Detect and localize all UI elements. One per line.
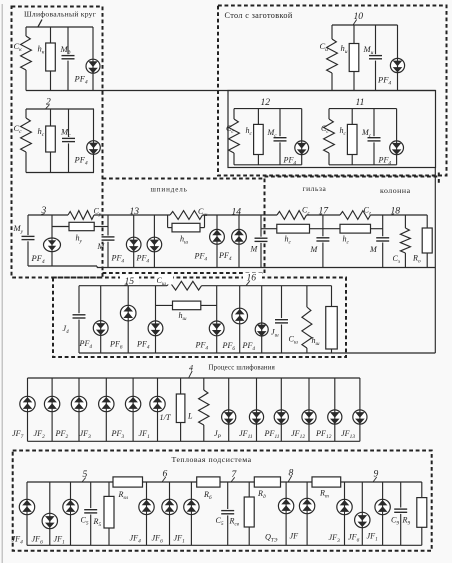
mass M_y capacitor (circuit3) [22,215,35,266]
source JP down (row4) [222,378,236,441]
scan edge line [1,4,3,563]
spring C_i (circuit10) [327,25,338,91]
mass M capacitor (node18) [376,215,390,268]
node 16 label [243,273,262,286]
svg-text:M: M [310,245,319,254]
resistor R_9 (node9) [417,482,427,545]
wire: main middle bus [28,214,427,216]
svg-text:Тепловая подсистема: Тепловая подсистема [172,455,252,464]
wire: circuit11 bottom rail [329,164,397,166]
damper h_sh vertical (16) [326,286,338,353]
source PF4 (circuit1) [86,27,100,91]
source QТЭ (thermal) [278,482,293,545]
source JF12 down (row4) [302,378,316,441]
svg-text:1/T: 1/T [160,413,172,422]
spring C_k (circuit1) [21,27,32,91]
source PF4 b (circuit14) [232,215,247,268]
block 1/T (row4) [176,378,185,441]
damper h_i (circuit10) [349,25,359,91]
svg-text:13: 13 [130,206,140,217]
spring C_c (circuit11) [324,109,335,165]
source JF2 up (row4) [44,378,59,441]
source JF6 (thermal) [42,482,57,545]
spring C_c (circuit2) [21,109,32,173]
wire: thermal bottom bus [27,544,422,546]
svg-text:Стол с заготовкой: Стол с заготовкой [225,11,293,20]
capacitor C_5 (node5) [84,482,98,545]
svg-text:11: 11 [356,97,365,108]
inductor L (row4) [199,378,209,441]
mass M_c capacitor (circuit12) [274,109,287,165]
source PF12 down (row4) [328,378,342,441]
source JF3 (thermal) [337,482,352,545]
wire: circuit3 bottom rail [28,266,97,268]
source PF4 c (16) [209,286,224,353]
svg-text:гильза: гильза [303,184,327,193]
dashed block: nodes 15-16 [53,278,346,358]
solid box around circuits 11 and 12 [228,91,436,168]
mass M capacitor (circuit14 right) [254,215,268,268]
wire: long bus between upper blocks [26,90,436,92]
dashed block: table with workpiece (Stol s zagotovkoj) [218,6,447,176]
source JF7 up (row4) [20,378,35,441]
node 1 label [38,20,42,27]
wire: 15/16 bottom bus [79,352,435,354]
resistor R_d (thermal 7-8) [254,477,280,487]
svg-text:14: 14 [232,207,242,218]
wire: circuit2 bottom rail [26,172,94,174]
source JF4 (thermal) [19,482,34,545]
svg-text:M: M [369,245,378,254]
capacitor J_4 (15) [72,286,86,353]
source PF4 (circuit12) [295,109,309,165]
source PF4 (circuit2) [87,109,101,173]
mass M capacitor (node17) [316,215,330,268]
source PF4 a (circuit14) [210,215,225,268]
source PF4 (circuit11) [390,109,404,165]
damper h_g right (sleeve) [323,224,383,233]
source JF6 (thermal) [162,482,177,545]
wire: circuit12 top rail [234,108,302,110]
svg-text:Процесс шлифования: Процесс шлифования [209,365,276,372]
capacitor J_sh (16) [275,286,289,353]
mass M_k capacitor (circuit1) [62,27,75,91]
source JF1 (thermal) [63,482,78,545]
node 15 label [120,275,139,287]
capacitor C_9 (node9) [394,482,408,545]
damper h_sh (15) [156,301,217,310]
spring C_sh inline (15) [167,281,202,290]
source JF6 (thermal) [355,482,370,545]
source PF4 a (circuit13) [126,215,141,268]
wire: circuit12 bottom rail [234,164,302,166]
source PF4 (circuit10) [390,25,404,91]
damper h_c (circuit12) [254,109,264,165]
resistor R_5 (node5) [104,482,114,545]
source PF11 down (row4) [274,378,288,441]
wire: circuit11 top rail [329,108,397,110]
spring C_c (circuit12) [229,109,240,165]
source PF4 d (16) [255,286,268,353]
source PF4 b (15) [148,286,163,353]
resistor R_t (thermal 8-9) [312,477,341,487]
svg-text:L: L [187,412,193,421]
svg-text:M: M [250,245,259,254]
wire: circuit10 top rail [332,24,398,26]
damper h_y (circuit3) [52,222,108,230]
spring C_sh vertical (16) [302,286,312,353]
svg-text:M: M [97,242,106,251]
mass M capacitor (circuit13 left) [101,215,115,268]
wire: 15/16 top bus [79,285,332,287]
damper h_g left (sleeve) [261,224,323,233]
capacitor C_5 (node7) [221,482,235,545]
spring C_g inline (sleeve left) [277,211,307,220]
svg-text:16: 16 [247,273,257,284]
dashed block: thermal subsystem (Teplovaya podsistema) [13,451,432,551]
spring C_sh inline (circuit13) [170,211,203,220]
wire: thermal bus [27,481,422,483]
resistor R_0 (column) [422,215,432,268]
resistor R_6 (thermal 6-7) [197,477,220,487]
mass M_i capacitor (circuit10) [369,25,382,91]
source JF (thermal) [299,482,314,545]
mass M_c capacitor (circuit11) [368,109,381,165]
svg-text:JF: JF [290,532,300,541]
source PF2 up (row4) [71,378,86,441]
source PF4 b (circuit13) [147,215,162,268]
dashed border: sleeve/column top (gilza-kolonna) [265,173,441,184]
wire: row4 bottom bus [28,440,360,442]
label C_sh (15) [155,275,173,287]
wire: right vertical link [434,168,436,354]
damper h_sh (circuit13) [168,215,205,232]
svg-text:шпиндель: шпиндель [151,186,188,194]
source PF4 a (15) [93,286,108,353]
source JF4 (thermal) [139,482,154,545]
svg-text:Шлифовальный круг: Шлифовальный круг [24,10,96,19]
svg-text:10: 10 [354,11,364,22]
source JF3 up (row4) [99,378,114,441]
source PF4 (circuit3) [44,215,61,266]
source PF3 up (row4) [125,378,140,441]
source PF6 up (15) [120,286,136,353]
source PF6 up (16) [232,286,248,353]
wire: row4 top bus [28,377,360,379]
spring C_g2 inline (sleeve right) [340,211,371,220]
svg-text:колонна: колонна [380,186,411,195]
spring C_z (column) [400,215,410,268]
resistor R_sv (node7) [244,482,254,545]
source JF1 (thermal) [184,482,199,545]
wire: circuit2 top rail [26,108,94,110]
damper h_k (circuit1) [46,27,56,91]
damper h_c (circuit2) [46,109,56,173]
source JF11 down (row4) [249,378,263,441]
damper h_c (circuit11) [347,109,357,165]
dashed block: spindle (shpindel) [103,179,265,274]
wire: middle band bottom bus [97,267,435,269]
source JF1 (thermal) [375,482,390,545]
wire: circuit1 top rail [26,26,93,28]
mass M_c capacitor (circuit2) [62,109,75,173]
resistor R_vl (thermal 5-6) [113,477,143,487]
svg-text:12: 12 [261,97,271,108]
source JF13 down (row4) [353,378,367,441]
spring C_y inline (circuit3) [68,211,94,220]
source JF1 up (row4) [150,378,165,441]
dashed block: grinding wheel (Shlifovalny krug) [12,7,103,278]
